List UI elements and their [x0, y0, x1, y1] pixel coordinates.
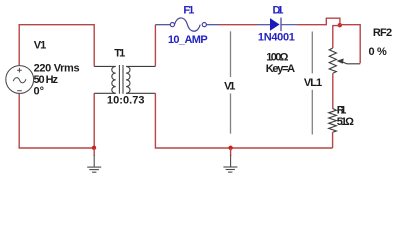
wire transformer secondary top up to fuse — [154, 25, 156, 67]
svg-text:100Ω: 100Ω — [266, 51, 288, 63]
svg-text:220 Vrms: 220 Vrms — [34, 62, 80, 74]
svg-text:VL1: VL1 — [304, 77, 322, 89]
probe net VL1 (vertical measurement wire) — [311, 32, 313, 135]
wire transformer primary bottom down to rail — [93, 93, 95, 148]
svg-text:10:0.73: 10:0.73 — [107, 95, 145, 107]
svg-text:0 %: 0 % — [369, 46, 388, 58]
svg-text:F1: F1 — [183, 5, 194, 17]
svg-text:RF2: RF2 — [373, 27, 392, 39]
ground (middle, below junction) — [223, 148, 237, 172]
svg-text:V1: V1 — [224, 81, 235, 93]
svg-text:R1: R1 — [337, 105, 347, 117]
diode D1 — [258, 18, 298, 32]
ground (left, below junction) — [87, 148, 101, 172]
wire V1 bottom to bottom-left rail — [19, 93, 94, 148]
svg-text:D1: D1 — [273, 5, 284, 17]
wire V1 top to transformer primary top — [19, 25, 94, 67]
transformer T1 — [94, 65, 155, 94]
value label 100 ohm / Key=A for RF2 — [266, 51, 295, 75]
node junction at bottom rail / middle ground — [228, 146, 232, 150]
svg-text:10_AMP: 10_AMP — [168, 34, 208, 46]
svg-text:51Ω: 51Ω — [337, 116, 354, 128]
wire fuse to diode — [219, 24, 258, 26]
probe net V1 (vertical measurement wire) — [230, 31, 232, 133]
wire RF2 bottom to R1 top — [332, 73, 334, 108]
resistor R1 — [329, 109, 337, 133]
svg-text:0°: 0° — [34, 86, 45, 98]
wire junction to RF2 wiper loop — [340, 25, 360, 64]
wire diode to RF2 with crossover bump — [298, 18, 340, 25]
potentiometer RF2 — [329, 48, 360, 73]
node junction at RF2 top — [338, 23, 342, 27]
voltage source V1 — [6, 66, 34, 94]
node junction at primary-bottom rail — [92, 146, 96, 150]
value label 220 Vrms / 50 Hz / 0deg — [34, 62, 80, 97]
wire R1 bottom to rail — [332, 132, 334, 148]
svg-text:V1: V1 — [34, 39, 47, 51]
fuse F1 — [155, 18, 219, 31]
svg-text:Key=A: Key=A — [266, 63, 295, 75]
svg-text:1N4001: 1N4001 — [258, 32, 295, 44]
svg-text:50 Hz: 50 Hz — [34, 74, 59, 86]
svg-text:T1: T1 — [114, 47, 125, 59]
wire junction down to RF2 top lead — [333, 26, 340, 48]
wire transformer secondary bottom to bottom rail — [155, 93, 332, 148]
